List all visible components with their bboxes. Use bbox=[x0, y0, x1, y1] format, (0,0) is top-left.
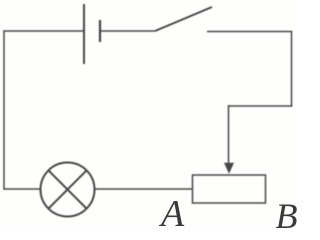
wire slider arrow stem bbox=[228, 105, 230, 164]
node A label bbox=[161, 195, 184, 233]
wire lamp to rheostat bbox=[95, 188, 193, 190]
slider arrowhead bbox=[224, 163, 234, 174]
lamp cross stroke 2 bbox=[49, 171, 87, 209]
lamp L1 circle bbox=[41, 163, 95, 217]
wire battery to switch bbox=[100, 30, 155, 32]
wire jog horizontal bbox=[229, 105, 293, 107]
battery B1 long plate (positive) bbox=[83, 4, 85, 64]
wire left horizontal to lamp bbox=[3, 188, 40, 190]
rheostat R body bbox=[193, 175, 266, 203]
wire left vertical bbox=[3, 31, 5, 189]
switch S1 lever (open) bbox=[155, 7, 212, 31]
wire right vertical bbox=[291, 31, 293, 106]
lamp cross stroke 1 bbox=[49, 171, 87, 209]
wire switch to top-right corner bbox=[207, 31, 292, 33]
wire top-left horizontal bbox=[3, 30, 84, 32]
battery B1 short plate (negative) bbox=[99, 20, 101, 42]
node B label bbox=[276, 198, 298, 234]
